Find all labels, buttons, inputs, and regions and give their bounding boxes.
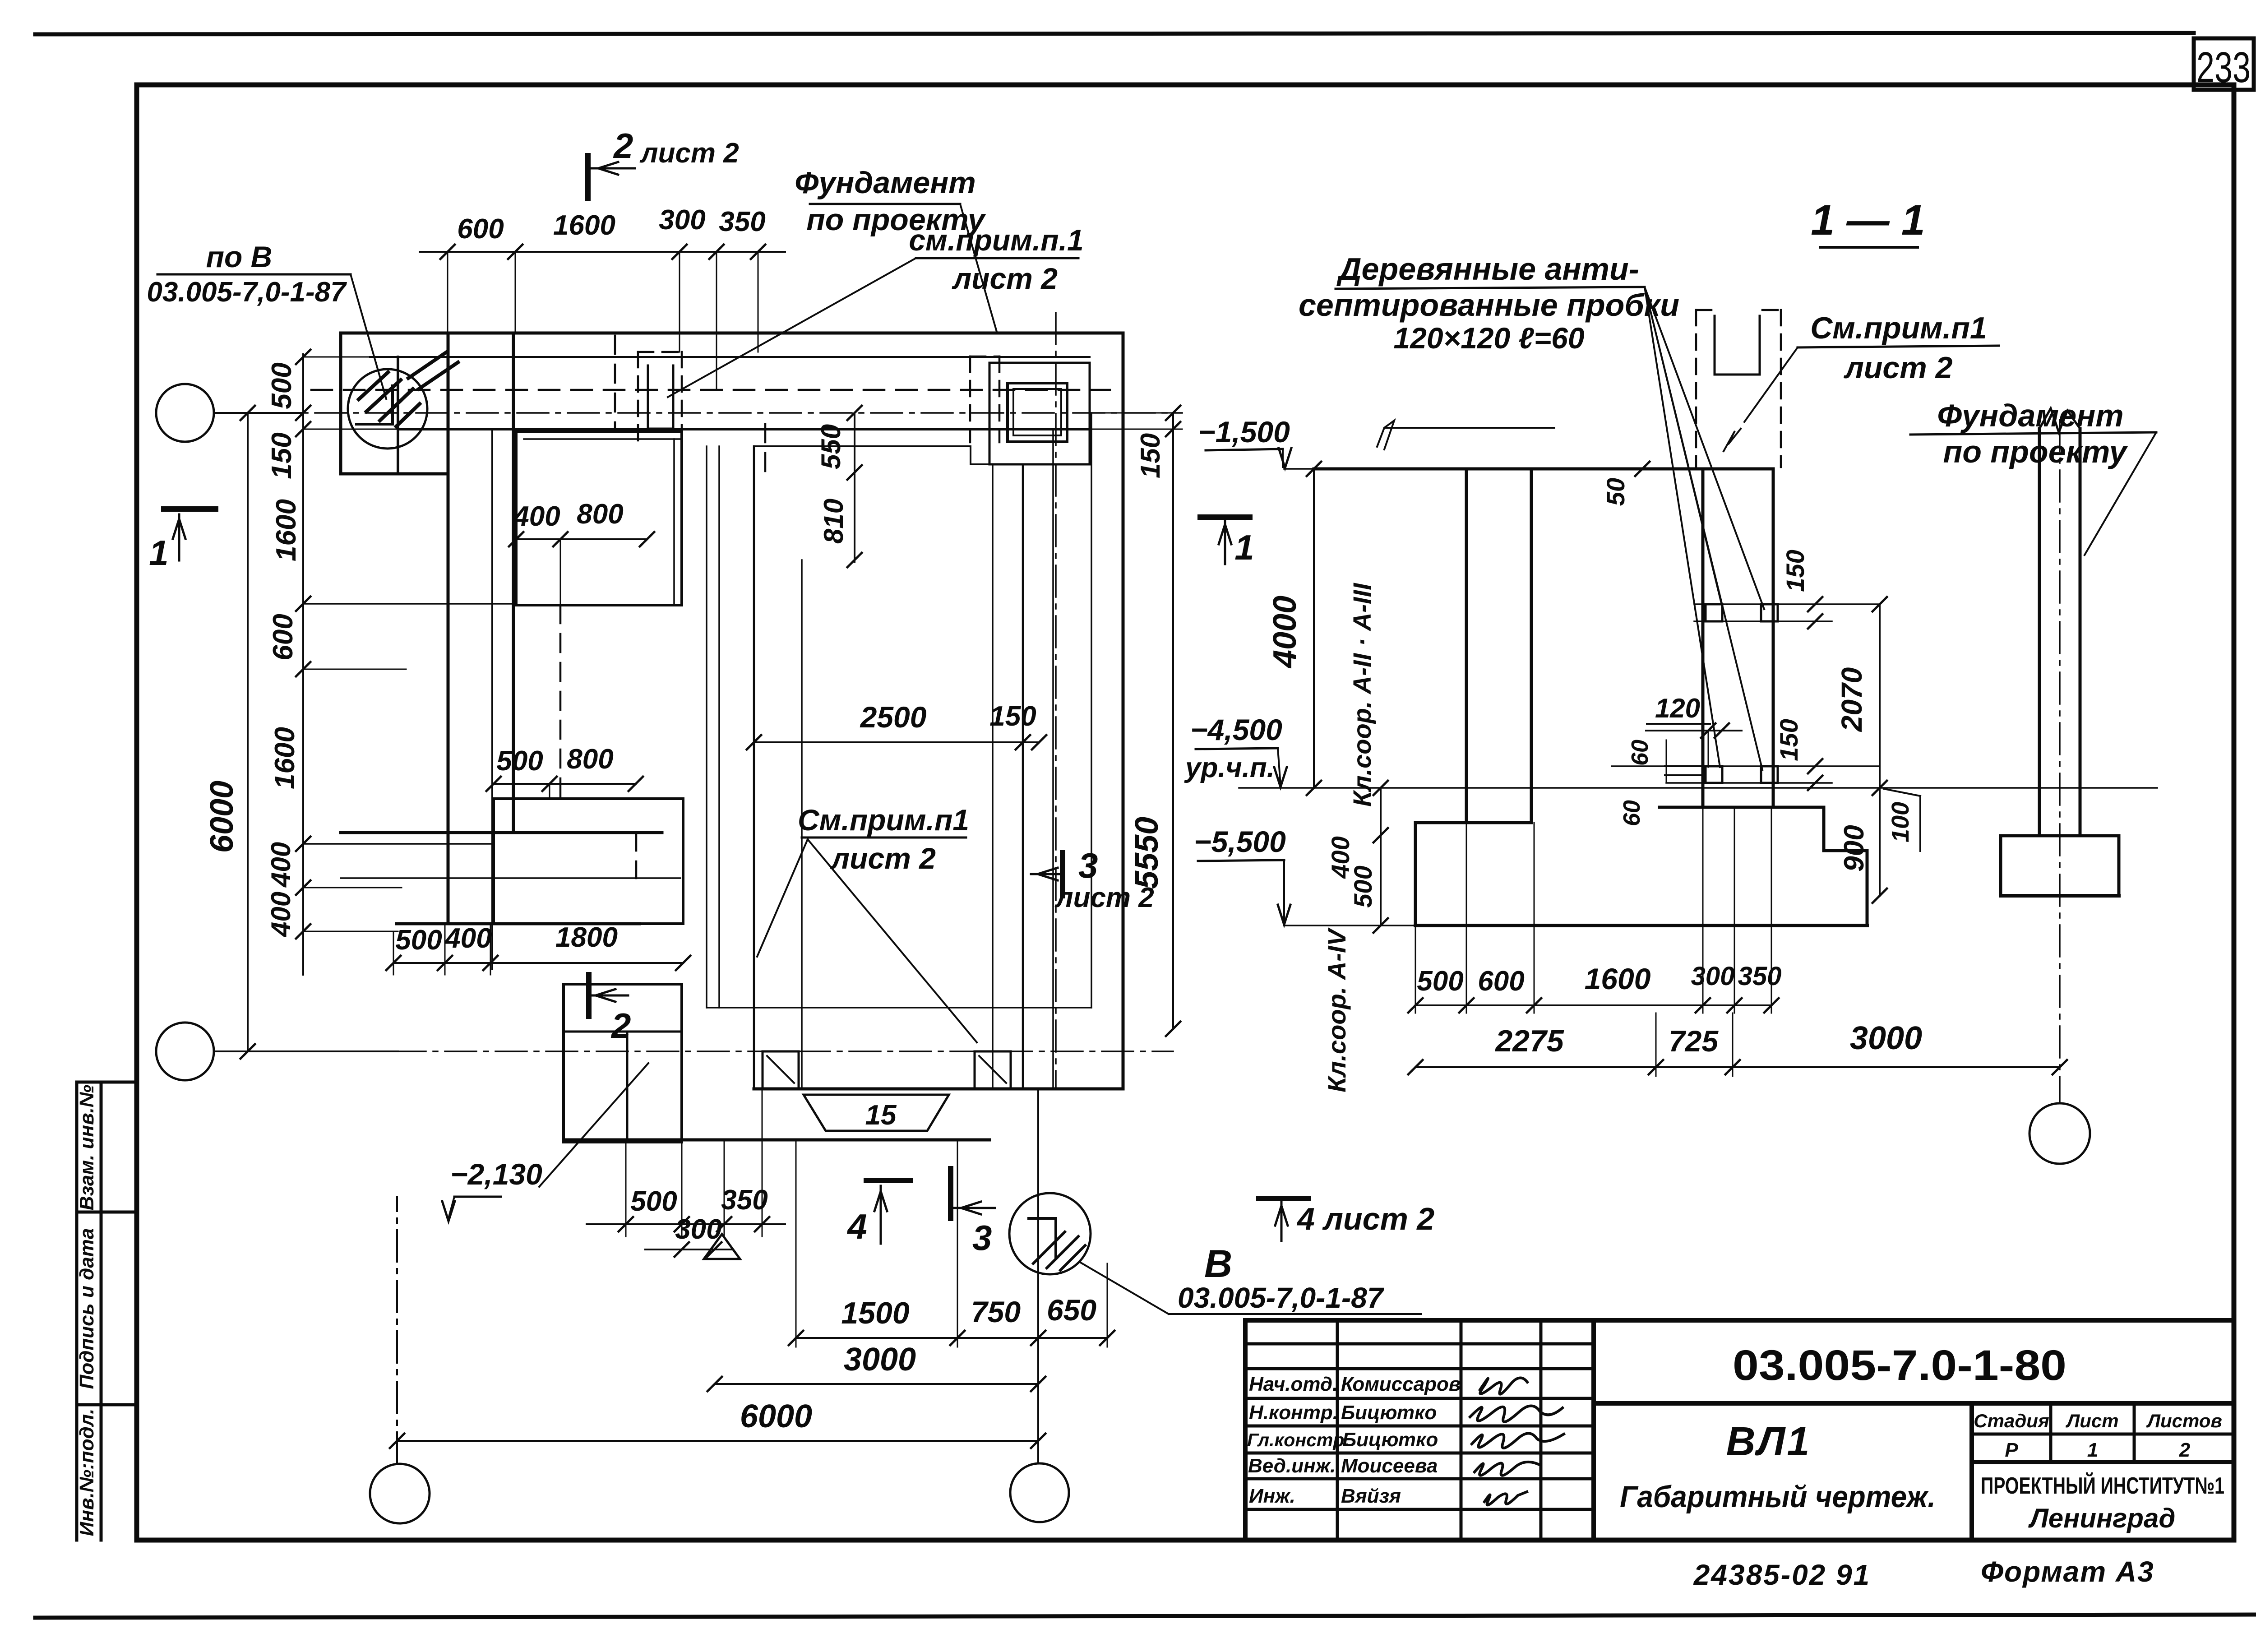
right foundation wall left face — [2038, 429, 2041, 836]
svg-text:300: 300 — [675, 1214, 721, 1245]
plan top-right column pad inner square — [1008, 383, 1067, 442]
plan basin floor left double line 1 — [706, 446, 707, 1008]
plan right wall second line — [1091, 413, 1092, 1008]
plan chimney block inner vertical — [626, 1032, 629, 1142]
wooden plug top-right — [1761, 604, 1778, 621]
svg-text:2070: 2070 — [1835, 667, 1868, 732]
svg-text:В: В — [1204, 1242, 1232, 1286]
section marker 4 list 2 right — [1259, 1196, 1308, 1201]
plan right wall inner line — [1052, 429, 1054, 1089]
svg-text:150: 150 — [1781, 550, 1809, 592]
plan top-left pad bottom edge — [341, 472, 448, 476]
plan chimney block outer rect — [564, 984, 682, 1142]
plan bottom horizontal thick edge — [564, 1138, 989, 1142]
svg-text:1600: 1600 — [271, 499, 302, 561]
dim 120 plugs — [1646, 730, 1742, 731]
svg-text:по проекту: по проекту — [1943, 434, 2128, 469]
axis circle left bottom connector — [214, 1050, 398, 1052]
stadia list listov box — [1972, 1403, 2234, 1540]
section left footing left edge — [1414, 823, 1417, 925]
section upper slab line — [1384, 427, 1554, 429]
plug leader 1 — [1645, 287, 1722, 607]
svg-text:300: 300 — [659, 204, 705, 236]
section marker 4 bottom — [866, 1178, 910, 1183]
svg-text:Кл.соор. А-II · А-III: Кл.соор. А-II · А-III — [1348, 583, 1376, 807]
dim right 150 and 5550 — [1172, 413, 1174, 1029]
svg-text:120×120 ℓ=60: 120×120 ℓ=60 — [1393, 321, 1584, 355]
section right wall left face — [1701, 469, 1705, 807]
plan hidden dashed vertical lower — [635, 833, 638, 878]
svg-text:1800: 1800 — [555, 922, 618, 953]
title block signature column lines — [1245, 1320, 1594, 1540]
plan anchor bottom-left box — [763, 1051, 799, 1087]
plan upper pad inner right line — [673, 439, 675, 605]
svg-text:750: 750 — [971, 1295, 1021, 1328]
plan outer top edge — [341, 332, 1123, 335]
svg-text:3: 3 — [972, 1218, 992, 1258]
dim row 3000 bottom — [715, 1383, 1038, 1385]
plan hidden dashed vertical right of upper pad — [764, 424, 767, 476]
svg-text:725: 725 — [1669, 1024, 1719, 1058]
svg-text:400: 400 — [266, 892, 296, 937]
svg-text:2: 2 — [613, 126, 633, 166]
svg-text:ур.ч.п.: ур.ч.п. — [1184, 752, 1275, 783]
dim row 500 350 chimney — [587, 1223, 785, 1225]
axis circle bottom right — [1010, 1463, 1069, 1522]
plan top-right column pad outer — [989, 363, 1090, 464]
svg-text:Габаритный чертеж.: Габаритный чертеж. — [1620, 1480, 1936, 1514]
svg-text:Бицютко: Бицютко — [1342, 1429, 1438, 1451]
plan basin bottom edge — [754, 1087, 1123, 1091]
svg-text:Вед.инж.: Вед.инж. — [1248, 1455, 1336, 1477]
svg-text:Листов: Листов — [2146, 1410, 2222, 1431]
svg-text:Вяйзя: Вяйзя — [1341, 1485, 1401, 1507]
plan top-left pad inner vertical — [397, 357, 399, 474]
plan top-left pad left edge — [339, 333, 342, 474]
detail circle V inner step — [1029, 1218, 1056, 1259]
section step lower horizontal — [1824, 849, 1867, 852]
dim row 6000 bottom — [397, 1440, 1038, 1442]
svg-text:Взам. инв.№: Взам. инв.№ — [76, 1085, 98, 1210]
dim 150 lower right plugs — [1612, 765, 1880, 767]
section marker 1 right — [1200, 514, 1250, 520]
dim 900 right — [1879, 788, 1881, 896]
svg-text:1600: 1600 — [1585, 962, 1651, 995]
svg-text:Бицютко: Бицютко — [1341, 1402, 1437, 1424]
dim 100 ledge — [1884, 789, 1920, 796]
svg-text:500: 500 — [1349, 865, 1377, 907]
section step right vertical — [1822, 807, 1826, 851]
svg-text:150: 150 — [1775, 719, 1803, 761]
hatch stroke outside circle 1 — [408, 352, 447, 378]
svg-text:350: 350 — [1738, 962, 1782, 991]
right foundation axis dash-dot — [2059, 420, 2061, 1103]
title block outer — [1245, 1320, 2234, 1540]
plan chimney block inner horizontal — [564, 1031, 682, 1033]
doc number separator — [1594, 1401, 2234, 1406]
svg-text:1 — 1: 1 — 1 — [1811, 196, 1925, 244]
right foundation wall right face — [2079, 429, 2082, 836]
dim 300 with slope mark — [645, 1249, 731, 1250]
svg-text:−5,500: −5,500 — [1194, 825, 1286, 858]
section footing right edge — [1866, 851, 1869, 925]
section marker 2 bottom — [586, 975, 592, 1016]
section step top — [1660, 806, 1824, 809]
svg-text:Инж.: Инж. — [1249, 1485, 1295, 1507]
svg-text:3: 3 — [1078, 846, 1098, 885]
svg-text:800: 800 — [577, 499, 623, 530]
plug leader 2 — [1645, 287, 1764, 609]
section marker 3 bottom — [948, 1169, 953, 1218]
axis circle left bottom — [156, 1023, 214, 1080]
plan dashed center line between pads — [559, 605, 562, 799]
plan axis B horizontal dash-dot — [293, 1050, 1173, 1052]
svg-text:3000: 3000 — [1850, 1020, 1922, 1056]
svg-text:Нач.отд.: Нач.отд. — [1249, 1373, 1338, 1395]
svg-text:4: 4 — [846, 1207, 867, 1246]
bottom outer rule — [35, 1615, 2256, 1618]
dim 400 500 left bottom — [1380, 788, 1382, 925]
dim 150 upper right plugs — [1694, 603, 1880, 605]
section dim row 500 600 1600 300 350 — [1415, 1004, 1771, 1006]
svg-text:6000: 6000 — [740, 1398, 812, 1435]
signatures squiggles — [1470, 1378, 1564, 1505]
left dim chain 500 150 1600 600 1600 400 400 — [302, 354, 304, 975]
svg-text:Р: Р — [2005, 1439, 2018, 1461]
plan pit inner vertical right — [992, 464, 994, 1089]
plug shelf line 2 — [1665, 774, 1706, 776]
svg-text:500: 500 — [630, 1186, 677, 1217]
svg-text:2275: 2275 — [1494, 1024, 1564, 1058]
plan outer right edge — [1122, 333, 1125, 1089]
right foundation footing top — [2001, 834, 2119, 838]
svg-text:500: 500 — [1417, 966, 1463, 997]
ground level line -4.500 — [1239, 787, 2157, 789]
svg-text:Фундамент: Фундамент — [795, 166, 976, 200]
plan top wall inner line — [370, 356, 1090, 358]
plan axis vertical dash-dot through column pads — [1055, 313, 1057, 1089]
svg-text:Комиссаров: Комиссаров — [1341, 1373, 1461, 1395]
svg-text:3000: 3000 — [844, 1342, 916, 1378]
plan axis A horizontal dash-dot — [214, 412, 1182, 414]
plan pit inner vertical left — [801, 560, 803, 1089]
svg-text:03.005-7.0-1-80: 03.005-7.0-1-80 — [1733, 1342, 2066, 1389]
svg-text:2: 2 — [2179, 1439, 2191, 1461]
svg-text:1600: 1600 — [269, 727, 300, 789]
hatch stroke outside circle 2 — [419, 362, 458, 389]
svg-text:1: 1 — [149, 533, 168, 573]
svg-text:60: 60 — [1627, 740, 1653, 766]
section left wall right face — [1530, 469, 1533, 823]
section left footing top — [1415, 821, 1531, 824]
dim 4000 vertical — [1313, 469, 1315, 788]
svg-text:Моисеева: Моисеева — [1341, 1455, 1438, 1477]
svg-text:300: 300 — [1691, 962, 1735, 991]
svg-text:2: 2 — [610, 1006, 631, 1046]
svg-text:−2,130: −2,130 — [450, 1157, 542, 1191]
svg-text:См.прим.п1: См.прим.п1 — [1810, 311, 1987, 345]
svg-text:4 лист 2: 4 лист 2 — [1296, 1201, 1434, 1236]
axis circle bottom left — [370, 1464, 430, 1523]
svg-text:Инв.№:подл.: Инв.№:подл. — [76, 1409, 98, 1536]
svg-text:650: 650 — [1047, 1293, 1096, 1327]
axis circle left top connector — [214, 412, 303, 414]
right foundation footing left edge — [1999, 836, 2002, 896]
plan trapezoid pit 15 — [804, 1095, 949, 1131]
svg-text:150: 150 — [266, 432, 297, 479]
plug leader 3 — [1645, 287, 1720, 767]
left dim 6000 vertical — [247, 413, 249, 1051]
plan basin inner right edge — [1022, 464, 1024, 1089]
svg-text:50: 50 — [1601, 478, 1630, 506]
svg-text:1600: 1600 — [553, 210, 615, 241]
svg-text:См.прим.п1: См.прим.п1 — [798, 803, 969, 837]
right foundation footing bottom — [2001, 894, 2119, 898]
leader po V — [351, 274, 386, 399]
svg-text:900: 900 — [1839, 825, 1870, 871]
svg-text:400: 400 — [266, 842, 296, 888]
svg-text:15: 15 — [865, 1100, 897, 1131]
sidebar column lines — [77, 1082, 137, 1540]
svg-text:1500: 1500 — [841, 1296, 909, 1330]
plan left wall inner face — [512, 333, 515, 833]
axis vertical bottom right — [1037, 1089, 1039, 1463]
section left wall left face — [1465, 469, 1468, 823]
svg-text:500: 500 — [395, 925, 442, 956]
plan basin inner top edge — [754, 445, 971, 447]
svg-text:Ленинград: Ленинград — [2028, 1503, 2176, 1533]
svg-text:Подпись и дата: Подпись и дата — [76, 1228, 98, 1389]
section footing bottom — [1415, 924, 1867, 927]
svg-text:5550: 5550 — [1129, 817, 1165, 889]
svg-text:−4,500: −4,500 — [1190, 713, 1282, 746]
detail circle V hatch — [1033, 1232, 1065, 1263]
svg-text:лист 2: лист 2 — [1054, 882, 1154, 913]
plan hidden dashed vertical in top wall — [614, 336, 616, 427]
svg-text:по В: по В — [206, 240, 273, 273]
underline V number — [1169, 1313, 1421, 1315]
plan basin floor lower thin line — [707, 1007, 1091, 1009]
detail circle inner step — [356, 386, 393, 424]
svg-text:септированные пробки: септированные пробки — [1299, 287, 1679, 323]
plan top wall hidden edge dashed — [311, 389, 1110, 391]
svg-text:800: 800 — [567, 744, 613, 775]
svg-text:лист 2: лист 2 — [830, 842, 936, 875]
svg-text:03.005-7,0-1-87: 03.005-7,0-1-87 — [147, 277, 347, 308]
svg-text:6000: 6000 — [204, 781, 240, 853]
plan lower horizontal thick edge — [397, 922, 639, 925]
section top edge — [1314, 467, 1773, 471]
wooden plug top-left — [1706, 604, 1722, 621]
dim 550 810 vertical — [854, 413, 855, 562]
plan lower-middle equipment pad — [494, 799, 683, 924]
dim 2500 150 — [754, 741, 1039, 743]
detail circle po V top-left — [348, 369, 427, 449]
anchor recess dashed above top — [1695, 310, 1697, 467]
svg-text:ВЛ1: ВЛ1 — [1726, 1419, 1812, 1464]
plan anchor recess dashed top-right — [969, 356, 971, 442]
dim 2070 right — [1879, 604, 1881, 788]
svg-text:400: 400 — [444, 923, 491, 954]
plan upper-middle equipment pad — [516, 431, 682, 605]
right foundation footing right edge — [2117, 836, 2121, 896]
svg-text:810: 810 — [818, 499, 849, 544]
plan basin inner left edge — [753, 446, 755, 1089]
leader to V label — [1081, 1263, 1169, 1314]
wooden plug bottom-left — [1706, 766, 1722, 783]
svg-text:Фундамент: Фундамент — [1937, 398, 2123, 433]
svg-text:−1,500: −1,500 — [1198, 415, 1290, 449]
svg-text:1: 1 — [1234, 528, 1254, 567]
svg-text:Гл.констр.: Гл.констр. — [1247, 1430, 1350, 1450]
right foundation axis circle — [2029, 1103, 2090, 1164]
plug leader 4 — [1645, 287, 1762, 770]
dim row 1500 750 650 — [796, 1337, 1107, 1339]
page number box — [2194, 38, 2254, 90]
svg-text:Лист: Лист — [2065, 1410, 2118, 1431]
svg-text:500: 500 — [496, 745, 543, 777]
plan left wall outer face — [447, 333, 450, 924]
svg-text:100: 100 — [1887, 802, 1914, 842]
svg-text:150: 150 — [989, 701, 1036, 732]
section marker 2 list 2 top — [585, 156, 591, 198]
top rule — [35, 33, 2194, 34]
section marker 3 top — [1060, 853, 1065, 896]
section right wall right face — [1772, 469, 1775, 807]
svg-text:60: 60 — [1619, 800, 1645, 826]
plan basin floor left double line 2 — [718, 446, 720, 1008]
plan anchor bottom-right box — [975, 1051, 1011, 1087]
plan top-right column pad inner-inner square — [1013, 389, 1061, 435]
axis circle left top — [156, 384, 214, 442]
svg-text:150: 150 — [1135, 433, 1165, 478]
svg-text:лист 2: лист 2 — [1844, 351, 1953, 385]
svg-text:600: 600 — [1478, 966, 1524, 997]
dim row 500 400 1800 — [393, 962, 683, 964]
svg-text:120: 120 — [1655, 693, 1700, 723]
plan left wall mid line — [491, 431, 493, 969]
name column texts — [1247, 1373, 1461, 1507]
plan mid horizontal thick edge — [341, 831, 662, 834]
svg-text:350: 350 — [719, 206, 765, 237]
dim 500 800 lower pad — [494, 783, 636, 785]
svg-text:03.005-7,0-1-87: 03.005-7,0-1-87 — [1178, 1282, 1385, 1314]
cup break mark — [1724, 429, 1741, 451]
svg-text:2500: 2500 — [860, 700, 927, 734]
axis vertical bottom left dash-dot — [396, 1197, 398, 1464]
detail circle V bottom — [1009, 1193, 1091, 1274]
anchor recess cup solid — [1715, 316, 1760, 375]
svg-text:Формат А3: Формат А3 — [1981, 1555, 2154, 1588]
svg-text:500: 500 — [266, 362, 297, 409]
svg-text:600: 600 — [457, 213, 504, 245]
level line extension -1.500 — [1284, 468, 1314, 470]
plan upper pad inner top line — [524, 438, 682, 440]
svg-text:ПРОЕКТНЫЙ ИНСТИТУТ№1: ПРОЕКТНЫЙ ИНСТИТУТ№1 — [1981, 1472, 2224, 1499]
svg-text:лист 2: лист 2 — [952, 262, 1058, 295]
svg-text:Н.контр.: Н.контр. — [1249, 1402, 1338, 1424]
svg-text:Кл.соор. А-IV: Кл.соор. А-IV — [1322, 927, 1351, 1092]
svg-text:350: 350 — [721, 1185, 767, 1216]
svg-text:Деревянные анти-: Деревянные анти- — [1336, 251, 1639, 287]
level line extension -5.500 — [1284, 925, 1415, 926]
section marker 1 left — [164, 506, 216, 512]
section upper slab break zigzag — [1377, 421, 1394, 449]
svg-text:24385-02 91: 24385-02 91 — [1693, 1559, 1871, 1591]
plan top wall bottom edge — [398, 428, 1090, 430]
svg-text:Стадия: Стадия — [1974, 1410, 2049, 1431]
section dim row 2275 725 3000 — [1415, 1066, 2060, 1068]
stadia headers — [1974, 1410, 2222, 1461]
plan anchor recess solid cup top-left — [648, 366, 673, 429]
svg-text:550: 550 — [816, 424, 846, 469]
svg-text:см.прим.п.1: см.прим.п.1 — [909, 223, 1083, 257]
svg-text:1: 1 — [2087, 1439, 2098, 1461]
dim row top 600 1600 300 350 — [420, 251, 785, 253]
svg-text:4000: 4000 — [1267, 596, 1303, 669]
dim 400 800 upper pad — [516, 538, 647, 540]
detail circle hatch — [359, 372, 388, 399]
right foundation break zigzag top — [2039, 408, 2080, 432]
svg-text:400: 400 — [513, 501, 560, 532]
wooden plug bottom-right — [1761, 766, 1778, 783]
svg-text:600: 600 — [268, 614, 299, 660]
plan basin top-right step horizontal — [971, 463, 1023, 465]
plan basin top-right step vertical — [970, 446, 971, 464]
plan mid horizontal thin line — [341, 877, 680, 879]
plug shelf line 1 — [1665, 765, 1706, 767]
svg-text:лист 2: лист 2 — [639, 138, 739, 169]
plan anchor recess dashed top-left — [637, 352, 639, 442]
